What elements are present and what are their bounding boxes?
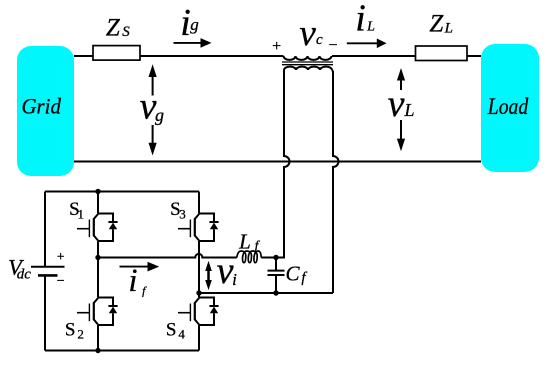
label iL bbox=[355, 0, 375, 39]
transformer secondary left lead with hop bbox=[276, 70, 290, 258]
wire top: Zs to transformer bbox=[140, 55, 284, 57]
wire top: transformer to ZL bbox=[332, 55, 416, 57]
transistor S1 bbox=[77, 214, 118, 242]
svg-text:v: v bbox=[388, 83, 405, 125]
label S3 bbox=[170, 199, 186, 221]
right leg wire segments bbox=[198, 192, 200, 351]
impedance Zs box bbox=[93, 46, 140, 61]
svg-text:3: 3 bbox=[179, 207, 186, 222]
transistor S4 bbox=[178, 298, 219, 326]
transformer secondary winding bbox=[284, 67, 332, 70]
label S1 bbox=[69, 199, 84, 221]
bottom grid wire bbox=[74, 161, 481, 163]
label Zs bbox=[106, 14, 130, 41]
capacitor Cf bbox=[268, 258, 285, 294]
transformer core bbox=[282, 62, 333, 65]
battery plate short bbox=[38, 274, 58, 277]
wire top: grid to Zs bbox=[74, 55, 93, 57]
impedance ZL box bbox=[416, 46, 468, 61]
svg-text:S: S bbox=[166, 320, 177, 341]
label vc bbox=[299, 13, 323, 54]
svg-text:−: − bbox=[57, 274, 65, 289]
svg-text:Load: Load bbox=[487, 94, 529, 119]
svg-text:4: 4 bbox=[178, 327, 185, 342]
inverter output wire with hop over right leg bbox=[98, 254, 237, 258]
svg-text:dc: dc bbox=[17, 267, 32, 283]
battery Vdc leads bbox=[44, 192, 46, 351]
transformer primary winding bbox=[284, 56, 332, 60]
svg-text:−: − bbox=[328, 37, 337, 54]
svg-text:c: c bbox=[316, 32, 323, 48]
svg-text:v: v bbox=[140, 86, 157, 128]
label Cf bbox=[285, 261, 307, 286]
label if bbox=[128, 263, 147, 299]
label S4 bbox=[166, 320, 185, 342]
svg-text:i: i bbox=[355, 0, 366, 39]
H-bridge top rail bbox=[45, 191, 199, 193]
left leg wire segments bbox=[97, 192, 99, 351]
svg-text:S: S bbox=[122, 24, 130, 40]
svg-text:L: L bbox=[403, 100, 414, 120]
svg-text:S: S bbox=[65, 320, 76, 341]
voltage arrow vi bbox=[205, 261, 212, 290]
label S2 bbox=[65, 320, 84, 342]
label Lf bbox=[238, 229, 260, 253]
transformer secondary right lead with hop bbox=[332, 70, 339, 293]
label vg bbox=[140, 86, 164, 128]
H-bridge bottom rail bbox=[45, 350, 199, 352]
svg-text:Grid: Grid bbox=[21, 94, 61, 119]
label ZL bbox=[429, 11, 453, 38]
wire top: ZL to load bbox=[467, 55, 481, 57]
label vi bbox=[217, 250, 238, 292]
inductor Lf bbox=[237, 251, 261, 263]
svg-text:+: + bbox=[272, 38, 281, 55]
load block bbox=[481, 44, 539, 172]
current arrow ig bbox=[174, 38, 212, 48]
wire inductor to node bbox=[261, 257, 276, 259]
svg-text:Z: Z bbox=[106, 14, 121, 41]
current arrow if bbox=[120, 262, 160, 272]
svg-text:v: v bbox=[217, 250, 234, 292]
svg-text:2: 2 bbox=[77, 327, 84, 342]
transistor S3 bbox=[178, 214, 219, 242]
voltage arrow vg bbox=[149, 64, 157, 155]
inverter bottom output wire bbox=[199, 292, 333, 294]
battery plate long bbox=[31, 266, 65, 268]
svg-text:g: g bbox=[155, 105, 164, 125]
svg-text:i: i bbox=[128, 263, 137, 299]
svg-text:Z: Z bbox=[429, 11, 444, 38]
svg-text:L: L bbox=[444, 21, 453, 37]
svg-text:i: i bbox=[180, 2, 191, 44]
junction node dots bbox=[95, 189, 278, 353]
svg-text:L: L bbox=[238, 229, 251, 253]
label ig bbox=[180, 2, 199, 44]
transistor S2 bbox=[77, 298, 118, 326]
svg-text:+: + bbox=[57, 249, 65, 264]
svg-text:L: L bbox=[366, 19, 375, 34]
label vL bbox=[388, 83, 415, 125]
svg-text:C: C bbox=[285, 261, 300, 285]
svg-text:i: i bbox=[232, 270, 237, 289]
current arrow iL bbox=[347, 39, 387, 49]
label Vdc bbox=[8, 255, 31, 283]
svg-text:g: g bbox=[190, 15, 199, 34]
svg-text:1: 1 bbox=[78, 207, 85, 222]
grid source block bbox=[17, 46, 74, 176]
voltage arrow vL bbox=[397, 68, 405, 151]
svg-text:v: v bbox=[299, 13, 316, 54]
